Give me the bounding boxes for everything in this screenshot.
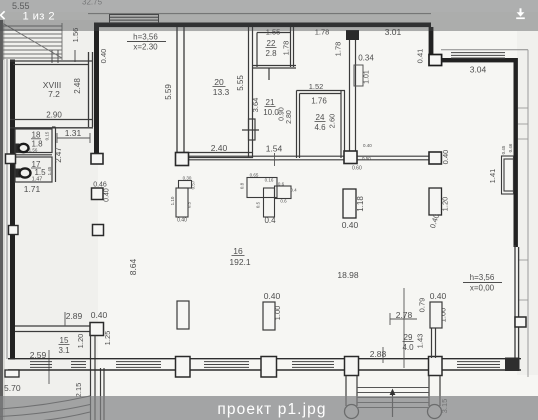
- column mid-bottom left: [177, 301, 189, 329]
- stair landing ticks: [52, 50, 75, 63]
- svg-text:1.01: 1.01: [364, 70, 371, 84]
- svg-text:8.64: 8.64: [128, 258, 138, 275]
- top wall: [94, 23, 431, 28]
- svg-text:0.40: 0.40: [264, 291, 281, 301]
- up arrow: [392, 392, 394, 417]
- room 15 corner block: [90, 323, 104, 336]
- svg-text:2.48: 2.48: [73, 78, 82, 94]
- svg-text:0.40: 0.40: [363, 143, 372, 148]
- svg-text:3.04: 3.04: [470, 65, 487, 75]
- right outer thin lines: [441, 49, 528, 51]
- svg-text:0.15: 0.15: [45, 131, 50, 140]
- svg-text:1 из 2: 1 из 2: [23, 10, 55, 22]
- svg-text:1.31: 1.31: [65, 128, 82, 138]
- column mid-bottom center: [263, 302, 275, 330]
- room 20 left wall: [177, 27, 184, 152]
- room 22 walls: [252, 27, 296, 80]
- wall left interior vertical: [94, 23, 99, 154]
- radiator right of wall: [354, 65, 363, 86]
- svg-text:4.6: 4.6: [314, 123, 326, 132]
- svg-text:1.18: 1.18: [356, 196, 365, 212]
- bottom-right corner block: [505, 358, 520, 372]
- svg-text:29: 29: [404, 333, 413, 342]
- svg-text:0.5: 0.5: [256, 201, 261, 208]
- column right x436 with stem: [430, 302, 442, 328]
- free pier squares column line x97: [92, 188, 104, 200]
- svg-text:1.78: 1.78: [334, 42, 343, 57]
- svg-text:0.90: 0.90: [279, 107, 286, 121]
- tick under 1.54: [270, 153, 279, 166]
- room 24 walls: [297, 91, 346, 159]
- svg-text:18: 18: [32, 131, 41, 140]
- photo left edge shadow: [0, 20, 3, 420]
- room 15 top wall: [15, 326, 100, 332]
- svg-text:0.30: 0.30: [183, 176, 192, 181]
- svg-text:2.60: 2.60: [328, 114, 337, 129]
- svg-text:1.45: 1.45: [47, 166, 52, 175]
- tall pier x349: [343, 189, 356, 218]
- svg-text:0.16: 0.16: [265, 178, 274, 183]
- room 20 bottom wall: [177, 153, 253, 158]
- right wall: [514, 58, 518, 247]
- bottom wall band: [8, 359, 521, 370]
- svg-text:1.10: 1.10: [170, 196, 175, 205]
- right-wall square lower: [515, 317, 526, 327]
- bottom windows: [30, 362, 500, 368]
- svg-text:2.15: 2.15: [74, 383, 83, 398]
- left protruding block below wall: [5, 370, 19, 377]
- svg-text:0.4: 0.4: [290, 188, 297, 193]
- room XVIII walls: [10, 52, 93, 128]
- svg-text:1.52: 1.52: [309, 82, 324, 91]
- svg-text:1.71: 1.71: [24, 184, 41, 194]
- svg-text:2.40: 2.40: [211, 143, 228, 153]
- svg-text:1.41: 1.41: [488, 169, 497, 184]
- svg-text:10.0: 10.0: [263, 108, 279, 117]
- svg-text:0.57: 0.57: [191, 180, 196, 189]
- svg-text:0.40: 0.40: [430, 291, 447, 301]
- svg-text:3.64: 3.64: [251, 98, 260, 113]
- columns row squares: [91, 154, 103, 165]
- left outer wall: [10, 60, 15, 360]
- svg-text:0.41: 0.41: [416, 49, 425, 64]
- left-wall square lower: [9, 226, 19, 235]
- svg-text:3.1: 3.1: [58, 346, 70, 355]
- svg-text:1.47: 1.47: [32, 177, 43, 183]
- svg-text:0.4: 0.4: [264, 216, 276, 225]
- toilet bowl 17: [16, 169, 21, 178]
- svg-text:5.55: 5.55: [236, 75, 245, 91]
- svg-text:0.8: 0.8: [240, 182, 245, 189]
- svg-text:1.78: 1.78: [282, 41, 291, 56]
- svg-text:1.00: 1.00: [273, 306, 282, 321]
- divider wall 18/17: [15, 154, 52, 156]
- svg-text:0.79: 0.79: [418, 298, 427, 313]
- svg-text:1.20: 1.20: [76, 334, 85, 349]
- svg-text:0.50: 0.50: [362, 156, 371, 161]
- svg-text:0.46: 0.46: [508, 143, 513, 152]
- svg-text:2.8: 2.8: [265, 49, 277, 58]
- svg-text:2.80: 2.80: [286, 110, 293, 124]
- svg-text:1.25: 1.25: [103, 331, 112, 346]
- svg-text:4.0: 4.0: [402, 343, 414, 352]
- svg-text:5.70: 5.70: [4, 383, 21, 393]
- svg-text:2.90: 2.90: [46, 111, 62, 120]
- svg-text:16: 16: [233, 246, 243, 256]
- wall x352 top cap: [346, 30, 359, 40]
- room 15 right wall down: [91, 336, 105, 420]
- svg-text:7.2: 7.2: [48, 89, 60, 99]
- right wall radiator: [502, 156, 514, 194]
- svg-text:0.6: 0.6: [280, 199, 287, 204]
- svg-text:0.6: 0.6: [278, 182, 285, 187]
- top window detail: [110, 15, 159, 23]
- svg-text:h=3,56: h=3,56: [133, 33, 158, 42]
- outer thin top line: [88, 13, 431, 15]
- toilet room 17: [15, 157, 52, 182]
- svg-text:0.60: 0.60: [352, 166, 362, 172]
- wall x352 vertical: [350, 31, 356, 152]
- bottom wall column blocks: [176, 357, 191, 378]
- svg-text:2.47: 2.47: [54, 147, 63, 163]
- dim ticks bottom-left: [49, 312, 65, 384]
- svg-text:2.88: 2.88: [370, 349, 387, 359]
- svg-text:0.40: 0.40: [91, 310, 108, 320]
- download icon: [516, 8, 525, 19]
- svg-text:1.20: 1.20: [441, 197, 450, 212]
- svg-text:192.1: 192.1: [229, 257, 251, 267]
- top bar overlay: [0, 0, 538, 31]
- entry stair columns below wall: [346, 376, 440, 407]
- svg-text:1.54: 1.54: [266, 144, 283, 154]
- svg-text:0.40: 0.40: [441, 150, 450, 165]
- entry steps: [357, 388, 429, 408]
- svg-text:1.56: 1.56: [29, 148, 38, 153]
- svg-text:1.43: 1.43: [416, 334, 425, 349]
- svg-text:5.59: 5.59: [164, 84, 173, 100]
- L pier x180: [176, 181, 192, 218]
- svg-text:21: 21: [266, 98, 275, 107]
- svg-text:13.3: 13.3: [213, 87, 230, 97]
- joint square top-right: [429, 55, 442, 66]
- svg-text:18.98: 18.98: [337, 270, 359, 280]
- mid horizontal wall y156: [177, 156, 441, 160]
- svg-text:0.34: 0.34: [358, 54, 374, 63]
- svg-text:0.40: 0.40: [99, 49, 108, 64]
- pier x435 tall: [429, 188, 442, 215]
- scan shading: [3, 20, 98, 420]
- svg-text:0.5: 0.5: [187, 201, 192, 208]
- svg-text:0.46: 0.46: [93, 182, 107, 189]
- svg-text:0.40: 0.40: [104, 188, 111, 202]
- stair top-left: [3, 23, 62, 60]
- svg-text:22: 22: [267, 39, 276, 48]
- wall right-top vertical: [429, 27, 434, 55]
- back chevron: [1, 11, 5, 19]
- svg-text:0.65: 0.65: [250, 173, 259, 178]
- svg-text:2.89: 2.89: [66, 311, 83, 321]
- toilet room 18: [15, 127, 56, 182]
- top-right window: [451, 53, 505, 58]
- svg-text:0.45: 0.45: [501, 145, 506, 154]
- svg-text:0.40: 0.40: [177, 218, 187, 224]
- left-wall pier square: [6, 154, 16, 164]
- svg-text:1.76: 1.76: [311, 97, 327, 106]
- bottom-left arcs: [0, 396, 90, 420]
- top-right horizontal wall: [442, 58, 517, 62]
- composite pier center: [247, 178, 291, 218]
- svg-text:проект p1.jpg: проект p1.jpg: [217, 401, 326, 418]
- svg-text:15: 15: [60, 336, 69, 345]
- svg-text:x=2.30: x=2.30: [133, 43, 158, 52]
- svg-text:20: 20: [214, 77, 224, 87]
- toilet bowl 18: [16, 144, 20, 153]
- bottom bar overlay: [0, 396, 538, 420]
- svg-text:0.40: 0.40: [342, 220, 359, 230]
- svg-text:x=0,00: x=0,00: [470, 284, 495, 293]
- room 20 right wall: [242, 27, 259, 158]
- svg-text:h=3,56: h=3,56: [470, 273, 495, 282]
- svg-text:24: 24: [316, 113, 325, 122]
